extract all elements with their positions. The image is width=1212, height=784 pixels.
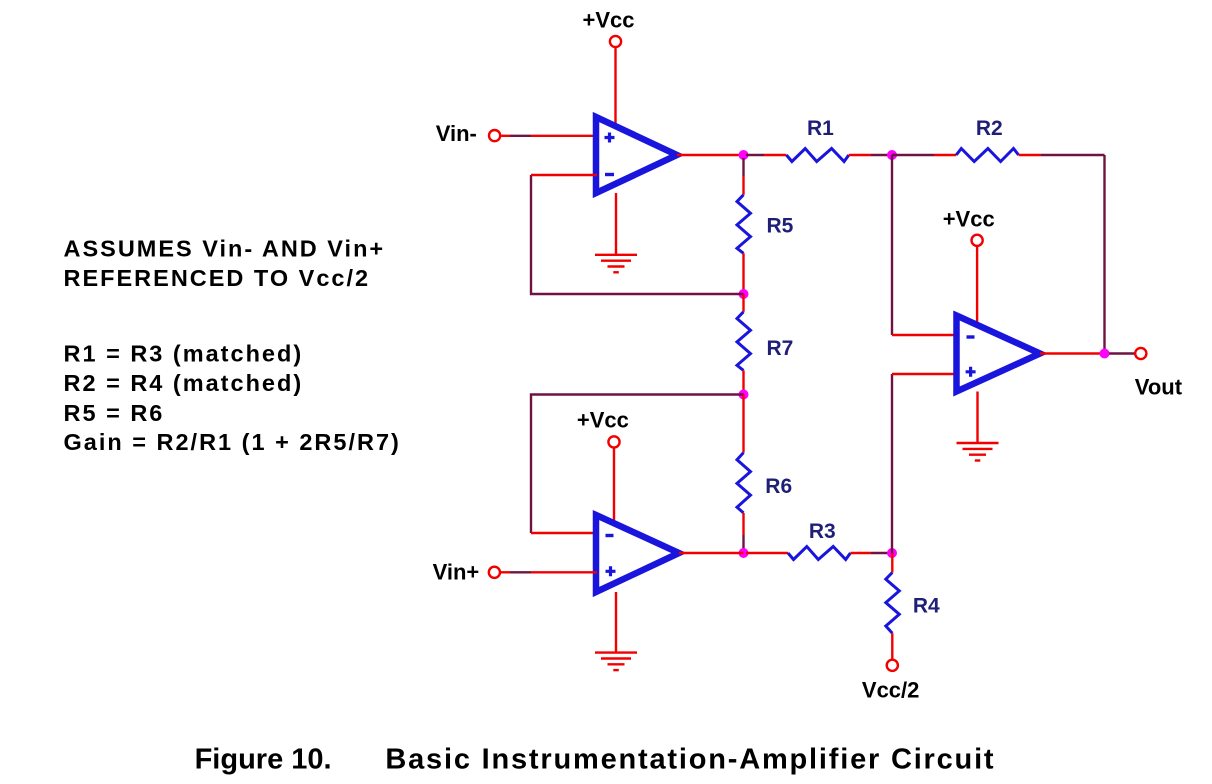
svg-text:REFERENCED TO Vcc/2: REFERENCED TO Vcc/2 [64, 265, 371, 291]
wire node G to Vout terminal [1109, 352, 1135, 354]
wire +Vcc to U3 [976, 246, 978, 327]
svg-text:Basic Instrumentation-Amplifie: Basic Instrumentation-Amplifier Circuit [385, 744, 995, 776]
node G junction [1100, 349, 1110, 359]
wire node B down to U3 - input [892, 155, 957, 335]
wire R1 to node B [849, 154, 892, 156]
terminal Vout [1135, 348, 1146, 359]
note text block [64, 235, 401, 455]
wire U3 ground stub [976, 392, 978, 444]
wire node F up to U3 + input [892, 374, 957, 553]
wire R2 to right corner [1019, 154, 1105, 156]
terminal Vcc/2 [887, 660, 898, 671]
caption Figure 10 [195, 744, 996, 776]
wire node D to R6 [742, 395, 744, 453]
svg-text:Gain = R2/R1 (1 + 2R5/R7): Gain = R2/R1 (1 + 2R5/R7) [64, 429, 401, 455]
wire feedback loop U2 [531, 395, 744, 534]
op-amp U1 [596, 117, 677, 193]
wire right feedback vertical [1103, 155, 1105, 354]
svg-text:R1: R1 [807, 117, 834, 140]
svg-text:R2: R2 [976, 117, 1003, 140]
resistor R7 [737, 312, 751, 371]
svg-text:Vin+: Vin+ [433, 560, 480, 585]
ground U1 [595, 255, 637, 272]
node B junction [887, 150, 897, 160]
wire node B to R2 [892, 154, 956, 156]
terminal +Vcc U1 [610, 36, 621, 47]
wire R5 to node C [742, 253, 744, 294]
wire Vin- to U1 + input [501, 135, 597, 137]
wire R6 to node E [742, 513, 744, 553]
node A junction [739, 150, 749, 160]
svg-text:R3: R3 [809, 520, 836, 543]
svg-text:+Vcc: +Vcc [943, 206, 995, 231]
resistor R4 [886, 573, 900, 634]
svg-text:+Vcc: +Vcc [577, 408, 629, 433]
op-amp U3 [957, 316, 1041, 392]
wire Vin+ to U2 [501, 571, 597, 573]
wire R7 to node D [742, 370, 744, 394]
wire U2 output to node E [679, 552, 744, 554]
terminal +Vcc U2 [608, 436, 619, 447]
svg-text:Vin-: Vin- [436, 121, 477, 146]
svg-text:R4: R4 [913, 595, 940, 618]
resistor R3 [788, 547, 850, 560]
svg-text:+Vcc: +Vcc [583, 8, 635, 33]
wire R3 to node F [850, 552, 892, 554]
wire node E to R3 [746, 552, 788, 554]
node D junction [739, 390, 749, 400]
wire R4 to Vcc/2 terminal [891, 633, 893, 659]
svg-text:R6: R6 [765, 475, 792, 498]
wire U2 ground stub [615, 592, 617, 653]
wire node C to R7 [742, 294, 744, 312]
ground U2 [595, 653, 637, 671]
resistor R2 [956, 149, 1018, 162]
node E junction [739, 548, 749, 558]
terminal +Vcc U3 [972, 235, 983, 246]
svg-text:ASSUMES Vin- AND Vin+: ASSUMES Vin- AND Vin+ [64, 235, 386, 261]
wire U1 ground stub [615, 193, 617, 255]
op-amp U2 [596, 515, 679, 592]
svg-text:R5 = R6: R5 = R6 [64, 400, 165, 426]
node F junction [887, 548, 897, 558]
wire +Vcc to U2 [613, 448, 615, 525]
wire +Vcc to U1 [614, 48, 616, 127]
svg-text:R7: R7 [767, 337, 794, 360]
terminal Vin+ [489, 567, 500, 578]
resistor R5 [737, 195, 751, 254]
svg-text:R2 = R4 (matched): R2 = R4 (matched) [64, 370, 304, 396]
svg-text:R5: R5 [767, 215, 794, 238]
svg-text:Vcc/2: Vcc/2 [862, 677, 920, 702]
wire feedback loop U1 [531, 175, 744, 294]
resistor R1 [786, 149, 848, 162]
wire node F down to R4 [891, 553, 893, 573]
wire U3 output to node G [1040, 352, 1105, 354]
resistor R6 [737, 453, 751, 513]
svg-text:R1 = R3 (matched): R1 = R3 (matched) [64, 340, 304, 366]
wire node A to R1 [746, 154, 786, 156]
wire node A down to R5 [742, 158, 744, 195]
ground U3 [957, 443, 999, 461]
wire U1 output to node A [677, 154, 744, 156]
node C junction [739, 289, 749, 299]
svg-text:Vout: Vout [1135, 375, 1183, 400]
svg-text:Figure 10.: Figure 10. [195, 744, 332, 776]
terminal Vin- [489, 130, 500, 141]
